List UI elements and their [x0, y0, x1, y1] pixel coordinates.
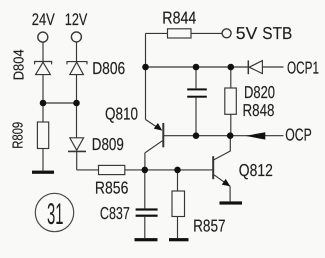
- svg-text:R844: R844: [162, 7, 196, 27]
- svg-text:R809: R809: [11, 122, 27, 149]
- svg-text:12V: 12V: [65, 10, 88, 29]
- svg-text:Q810: Q810: [105, 103, 138, 123]
- svg-text:R857: R857: [193, 216, 226, 236]
- svg-text:C837: C837: [100, 203, 130, 223]
- svg-text:D820: D820: [244, 82, 275, 102]
- svg-text:24V: 24V: [32, 10, 56, 29]
- svg-text:5V: 5V: [236, 23, 258, 43]
- svg-text:D806: D806: [92, 58, 125, 78]
- svg-text:STB: STB: [262, 23, 292, 43]
- svg-text:D804: D804: [12, 49, 28, 80]
- svg-text:R856: R856: [95, 177, 128, 197]
- svg-text:OCP1: OCP1: [287, 58, 319, 78]
- svg-text:R848: R848: [243, 100, 275, 120]
- svg-text:Q812: Q812: [239, 160, 273, 180]
- svg-text:D809: D809: [92, 134, 124, 154]
- svg-text:OCP: OCP: [285, 124, 312, 144]
- svg-text:31: 31: [47, 198, 64, 231]
